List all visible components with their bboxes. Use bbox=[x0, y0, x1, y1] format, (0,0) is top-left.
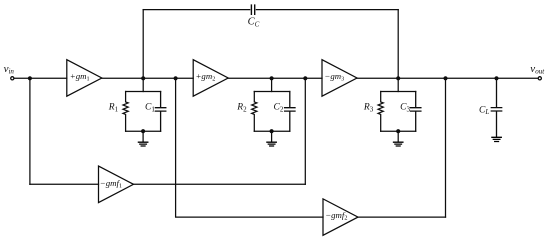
wire gmf2 output to riser bbox=[358, 216, 446, 218]
wire CC rail right bbox=[256, 9, 398, 11]
svg-text:−gm3: −gm3 bbox=[324, 71, 344, 83]
node 1b gmf2 tap bbox=[174, 76, 178, 80]
resistor R3 bbox=[378, 92, 383, 132]
svg-text:CL: CL bbox=[479, 105, 489, 116]
svg-text:−gmf2: −gmf2 bbox=[325, 210, 347, 222]
wire stub node1 to R1C1 bbox=[142, 78, 144, 91]
wire gm1 to gm2 bbox=[102, 77, 193, 79]
svg-text:C1: C1 bbox=[145, 103, 155, 114]
wire gmf2 output riser bbox=[445, 78, 447, 217]
node input junction bbox=[28, 76, 32, 80]
svg-text:R3: R3 bbox=[363, 103, 374, 114]
wire gmf1 output riser bbox=[304, 78, 306, 184]
node R1C1 bottom bbox=[141, 129, 145, 133]
svg-text:vout: vout bbox=[530, 63, 545, 76]
node R3C3 bottom bbox=[396, 129, 400, 133]
wire node1 down and across to gmf2 input bbox=[176, 78, 323, 217]
resistor R1 bbox=[123, 92, 128, 132]
wire stub node3 to R3C3 bbox=[397, 78, 399, 91]
wire stub node2 to R2C2 bbox=[271, 78, 273, 91]
wire to ground 1 bbox=[142, 131, 144, 141]
op-amp U1 +gm1 bbox=[67, 60, 102, 96]
capacitor CL bbox=[491, 78, 501, 136]
capacitor C3 bbox=[411, 92, 421, 132]
wire node1 up to CC rail bbox=[142, 10, 144, 79]
capacitor C2 bbox=[285, 92, 295, 132]
wire gmf1 output to riser bbox=[134, 183, 306, 185]
wire to ground 2 bbox=[271, 131, 273, 141]
wire gm3 to output bbox=[357, 77, 538, 79]
wire gm2 to gm3 bbox=[228, 77, 322, 79]
node 1a top-rail and R1C1 tap bbox=[141, 76, 145, 80]
svg-text:C2: C2 bbox=[274, 103, 284, 114]
node 2b gmf1 output tap bbox=[303, 76, 307, 80]
wire vin node to gmf1 input bbox=[30, 183, 99, 185]
wire R1C1 top bracket bbox=[126, 91, 161, 93]
op-amp U4 -gmf1 bbox=[99, 166, 134, 203]
node R2C2 bottom bbox=[270, 129, 274, 133]
svg-text:+gm1: +gm1 bbox=[70, 71, 90, 83]
wire CC rail left bbox=[143, 9, 250, 11]
wire R2C2 top bracket bbox=[254, 91, 289, 93]
output terminal vout bbox=[538, 77, 541, 80]
svg-text:+gm2: +gm2 bbox=[196, 71, 216, 83]
wire to ground 3 bbox=[397, 131, 399, 141]
svg-text:R2: R2 bbox=[236, 103, 247, 114]
wire R3C3 bottom bracket bbox=[381, 130, 416, 132]
svg-text:C3: C3 bbox=[400, 103, 410, 114]
wire input to gm1 bbox=[14, 77, 67, 79]
svg-text:vin: vin bbox=[4, 63, 15, 76]
ground 3 bbox=[394, 142, 403, 146]
wire R2C2 bottom bracket bbox=[254, 130, 289, 132]
wire R1C1 bottom bracket bbox=[126, 130, 161, 132]
resistor R2 bbox=[252, 92, 257, 132]
wire input down to gmf1 row bbox=[29, 78, 31, 184]
svg-text:CC: CC bbox=[248, 17, 260, 29]
capacitor CC bbox=[251, 5, 254, 14]
ground 2 bbox=[267, 142, 276, 146]
capacitor C1 bbox=[155, 92, 165, 132]
wire node3 up to CC rail bbox=[397, 10, 399, 79]
svg-text:R1: R1 bbox=[108, 103, 119, 114]
op-amp U2 +gm2 bbox=[193, 60, 228, 96]
op-amp U3 -gm3 bbox=[322, 60, 357, 96]
node 2a R2C2 tap bbox=[270, 76, 274, 80]
svg-text:−gmf1: −gmf1 bbox=[100, 178, 122, 190]
node 3c CL tap bbox=[494, 76, 498, 80]
op-amp U5 -gmf2 bbox=[323, 199, 358, 236]
ground 1 bbox=[138, 142, 147, 146]
input terminal vin bbox=[11, 77, 14, 80]
node 3b gmf2 output tap bbox=[443, 76, 447, 80]
ground CL bbox=[492, 137, 501, 141]
node 3a top-rail and R3C3 tap bbox=[396, 76, 400, 80]
wire R3C3 top bracket bbox=[381, 91, 416, 93]
